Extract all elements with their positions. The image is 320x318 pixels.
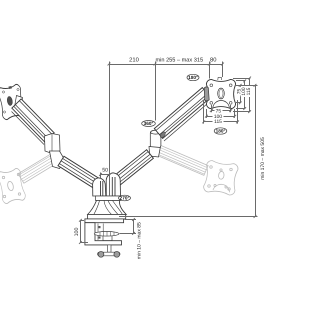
svg-text:180°: 180° <box>216 129 226 134</box>
right tall dimension min 170 - max 505 <box>236 85 258 87</box>
svg-text:75: 75 <box>216 108 222 114</box>
pole base <box>88 201 127 215</box>
svg-text:360°: 360° <box>144 121 154 126</box>
svg-text:min 255 – max 315: min 255 – max 315 <box>156 56 204 63</box>
right plate VESA holes <box>210 84 232 104</box>
top dim extension line plate left <box>209 62 211 79</box>
svg-text:115: 115 <box>214 119 222 125</box>
clamp C-bracket <box>85 223 122 245</box>
right plate bottom arch <box>213 100 230 107</box>
left arm gas rod <box>12 112 45 145</box>
VESA horizontal dimension 100 <box>206 109 208 118</box>
pole left ball joint <box>93 173 121 196</box>
top dim extension line left <box>109 62 111 173</box>
VESA vertical dimension 75 <box>236 85 241 87</box>
VESA vertical dimension 100 <box>236 80 245 82</box>
left VESA plate <box>0 84 26 121</box>
top dimension line <box>109 64 223 66</box>
svg-text:100: 100 <box>214 114 222 120</box>
clamp top plate <box>85 219 124 223</box>
left plate hinge bracket <box>14 96 23 113</box>
right plate top tab <box>218 77 222 80</box>
angle label 270 <box>119 195 131 201</box>
svg-text:270°: 270° <box>120 196 130 201</box>
ghost right VESA plate <box>203 160 239 196</box>
right plate central oval <box>218 88 225 99</box>
left upper arm <box>12 99 54 142</box>
angle label 360 <box>142 121 156 127</box>
base skirt <box>88 215 126 219</box>
top dim extension line plate right <box>222 62 224 78</box>
svg-text:min 10 – max 85: min 10 – max 85 <box>136 222 142 259</box>
svg-text:210: 210 <box>129 56 139 63</box>
svg-text:115: 115 <box>246 87 252 95</box>
svg-text:50: 50 <box>102 168 108 174</box>
VESA vertical dimension 115 <box>233 78 250 80</box>
svg-text:100: 100 <box>74 228 80 237</box>
VESA horizontal dimension 115 <box>203 100 205 124</box>
ghost left arm <box>18 154 57 183</box>
right forearm <box>111 150 153 187</box>
clamp dimension min 10 - max 85 <box>125 219 137 221</box>
clamp dimension 100 <box>80 220 84 222</box>
right VESA plate <box>206 79 235 108</box>
ghost right arm <box>156 145 208 175</box>
ghost left VESA plate <box>0 168 26 205</box>
clamp pad <box>94 232 119 241</box>
svg-text:80: 80 <box>210 56 216 63</box>
left elbow joint <box>45 134 65 169</box>
right upper arm <box>154 88 210 139</box>
top dim extension line mid <box>155 62 157 121</box>
right arm gas rod <box>164 104 208 142</box>
VESA horizontal dimension 75 <box>211 105 213 112</box>
clamp screw <box>98 245 121 257</box>
right arm hinge at plate <box>204 87 209 101</box>
left forearm <box>58 156 101 188</box>
svg-text:min 170 – max 505: min 170 – max 505 <box>260 137 265 180</box>
dimension 50 <box>101 174 111 176</box>
clamp inner slider <box>98 224 103 241</box>
angle label 180 top <box>187 74 199 80</box>
pole right ball joint <box>106 173 120 196</box>
pole collar <box>96 196 121 201</box>
svg-text:180°: 180° <box>188 75 198 80</box>
angle label 180 bottom <box>214 128 227 134</box>
right elbow joint <box>149 130 161 157</box>
